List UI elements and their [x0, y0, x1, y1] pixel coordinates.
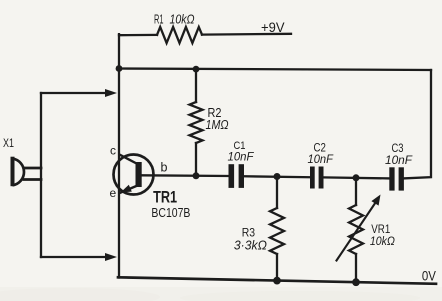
- svg-text:0V: 0V: [422, 268, 437, 284]
- wire: bottom 0V rail: [118, 277, 436, 284]
- VR1 arrow head: [371, 195, 380, 206]
- potentiometer VR1 body: [355, 178, 357, 205]
- wire: right vertical rail: [404, 70, 431, 178]
- svg-text:10kΩ: 10kΩ: [170, 12, 195, 27]
- svg-text:C1: C1: [234, 140, 246, 152]
- wire: second horizontal rail: [119, 69, 431, 71]
- svg-text:X1: X1: [3, 138, 14, 150]
- resistor R2 body: [195, 69, 197, 102]
- capacitor C3 plates: [389, 167, 404, 190]
- svg-text:10nF: 10nF: [228, 152, 255, 164]
- wire: lower output arrow line: [41, 256, 107, 258]
- earpiece X1 symbol: [13, 157, 24, 187]
- svg-text:10nF: 10nF: [308, 152, 334, 166]
- svg-text:TR1: TR1: [153, 189, 177, 207]
- junction node: R3 top: [274, 173, 281, 180]
- X1 upper lead: [25, 167, 41, 170]
- capacitor C1 plates: [229, 164, 245, 188]
- svg-text:c: c: [110, 144, 116, 158]
- X1 lower lead: [24, 178, 41, 181]
- svg-text:BC107B: BC107B: [151, 205, 190, 220]
- resistor R1: [157, 27, 202, 43]
- junction node: R2 top: [193, 66, 200, 73]
- VR1 arrow shaft: [337, 202, 376, 260]
- svg-text:1MΩ: 1MΩ: [206, 117, 229, 132]
- wire: top rail right segment to +9V: [202, 33, 291, 36]
- output arrow head: [105, 253, 117, 261]
- TR1 emitter arrow: [121, 185, 132, 193]
- wire: C2 to C3: [324, 177, 390, 178]
- transistor TR1: [114, 154, 154, 195]
- svg-text:R1: R1: [154, 12, 164, 27]
- junction node: left rail / second rail: [116, 65, 123, 72]
- capacitor C2 plates: [310, 167, 324, 189]
- TR1 circle: [114, 155, 154, 195]
- junction node: R3 bottom: [273, 277, 281, 285]
- wire: C1 to C2: [244, 175, 310, 178]
- input arrow head: [105, 89, 117, 97]
- wire: top rail left segment: [119, 34, 157, 37]
- junction node: R2 bottom / base: [193, 172, 200, 179]
- resistor R3 body: [276, 177, 278, 209]
- TR1 base bar: [136, 162, 142, 187]
- junction node: VR1 top: [353, 174, 360, 181]
- svg-text:+9V: +9V: [261, 20, 285, 35]
- TR1 emitter lead: [119, 186, 138, 194]
- svg-text:10kΩ: 10kΩ: [370, 234, 395, 248]
- X1 vertical lead wire: [40, 93, 42, 257]
- svg-text:10nF: 10nF: [385, 153, 413, 167]
- junction node: VR1 bottom: [352, 278, 360, 286]
- wire: base line TR1 to C1: [141, 174, 229, 177]
- wire: left vertical rail: [118, 34, 120, 277]
- svg-text:b: b: [161, 161, 168, 175]
- TR1 collector lead: [119, 154, 138, 164]
- wire: upper input arrow line: [41, 92, 107, 94]
- svg-text:e: e: [110, 186, 117, 200]
- svg-text:3·3kΩ: 3·3kΩ: [234, 238, 267, 253]
